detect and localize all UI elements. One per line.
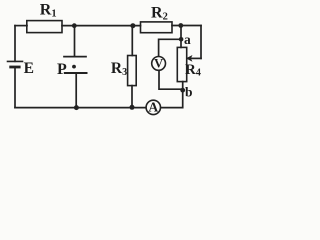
wire: R2 to top-right corner — [172, 25, 201, 27]
node T3 junction dot — [178, 23, 183, 28]
wire: left border bottom (battery to bottom wire) — [14, 67, 16, 108]
capacitor P top plate — [64, 56, 86, 58]
svg-text:E: E — [24, 60, 34, 77]
svg-text:A: A — [148, 100, 158, 115]
arrowhead of R4 slider — [187, 56, 192, 61]
battery E long plate — [8, 60, 23, 62]
charged particle in capacitor P — [72, 65, 76, 69]
voltmeter V — [152, 57, 166, 71]
junction dot under R3 — [130, 105, 135, 110]
battery E short plate — [11, 66, 20, 69]
ammeter A — [146, 100, 160, 114]
resistor R3 — [128, 56, 137, 86]
resistor R2 — [141, 22, 173, 33]
wire: R4 down to node b — [182, 82, 184, 90]
capacitor P bottom plate — [65, 72, 87, 74]
wire: left border top (to battery) — [14, 26, 16, 62]
wire: bottom from left corner to ammeter — [15, 107, 146, 109]
wire: node T3 down through node a to R4 — [180, 26, 182, 48]
wire: R3 down to bottom wire — [131, 86, 133, 108]
node b junction dot — [180, 88, 185, 93]
svg-text:b: b — [185, 84, 193, 99]
wire: right border down to slider level — [200, 26, 202, 59]
wire: node b down and left to ammeter — [160, 90, 183, 108]
wire: R1 to node T2 (through node T1) — [62, 25, 141, 27]
node T1 junction dot — [72, 23, 77, 28]
node T2 junction dot — [130, 23, 135, 28]
wire: node T1 down to capacitor P — [74, 26, 76, 57]
svg-text:V: V — [154, 57, 163, 71]
wire: top-left from left border to R1 — [15, 25, 27, 27]
svg-text:P: P — [57, 61, 67, 78]
resistor R1 — [27, 21, 62, 33]
wire: voltmeter down and right to node b — [159, 70, 183, 89]
junction dot under capacitor P — [74, 105, 79, 110]
wire: slider arm of R4 — [189, 57, 201, 59]
wire: node T2 down to R3 — [131, 26, 133, 56]
rheostat R4 — [177, 47, 186, 81]
svg-text:a: a — [184, 32, 191, 47]
wire: node a left and down to voltmeter — [159, 39, 181, 56]
node a junction dot — [179, 37, 184, 42]
wire: capacitor P down to bottom wire — [75, 73, 77, 108]
